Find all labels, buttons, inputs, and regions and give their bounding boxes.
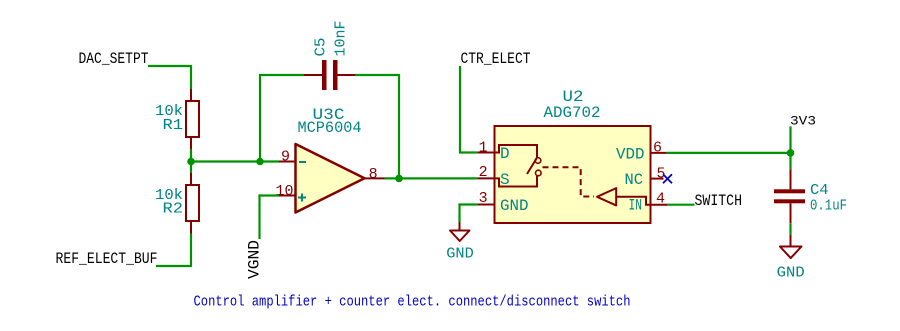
svg-text:R2: R2 (163, 201, 184, 218)
resistor R1 (186, 89, 199, 149)
svg-text:D: D (500, 145, 510, 163)
switch top contact circle (535, 158, 541, 164)
svg-text:REF_ELECT_BUF: REF_ELECT_BUF (56, 250, 158, 268)
dashed control line (543, 167, 595, 196)
svg-text:10: 10 (275, 183, 293, 200)
power symbol 3V3 (790, 113, 816, 153)
wire junction to R2 (190, 162, 192, 174)
wire pin 6 to 3V3 junction (667, 152, 791, 154)
wire U2 pin 3 to GND (460, 205, 479, 223)
U2 pin 4 stub (651, 204, 668, 206)
svg-text:SWITCH: SWITCH (695, 192, 743, 210)
op-amp U3C (296, 144, 365, 213)
U2 pin 3 stub (478, 204, 495, 206)
svg-text:10nF: 10nF (333, 21, 350, 57)
svg-text:NC: NC (625, 171, 644, 189)
opamp pin 10 stub (279, 195, 296, 197)
junction output feedback (395, 175, 403, 183)
U2 pin 5 stub (651, 178, 664, 180)
U2 pin 6 stub (651, 152, 667, 154)
wire DAC_SETPT to R1 (148, 66, 191, 90)
wire feedback up and across (260, 75, 304, 162)
svg-text:ADG702: ADG702 (544, 104, 601, 122)
svg-text:8: 8 (369, 166, 378, 183)
ground symbol under U2 (450, 222, 470, 241)
svg-text:DAC_SETPT: DAC_SETPT (79, 50, 149, 68)
junction 3V3 C4 (787, 149, 795, 157)
opamp pin 9 stub (279, 161, 296, 163)
svg-text:GND: GND (777, 265, 805, 282)
junction R1 R2 (187, 158, 195, 166)
U2 pin 1 stub (478, 152, 495, 154)
opamp minus input mark (299, 161, 306, 163)
svg-text:Control amplifier + counter el: Control amplifier + counter elect. conne… (194, 294, 631, 311)
switch contact polyline from S (495, 176, 538, 187)
U2 pin 2 stub (478, 177, 495, 179)
wire CTR_ELECT to U2 pin 1 (460, 66, 478, 153)
wire R2 to REF_ELECT_BUF (156, 234, 191, 267)
wire R1 to junction (190, 149, 192, 162)
wire junction to C4 (789, 153, 791, 169)
no-connect X on pin 5 (663, 174, 672, 183)
svg-text:C5: C5 (313, 38, 330, 57)
opamp plus input mark (298, 194, 306, 202)
capacitor C5 (304, 60, 355, 90)
svg-text:3V3: 3V3 (790, 113, 816, 128)
line driver to IN pin (616, 197, 650, 205)
svg-text:GND: GND (446, 246, 474, 263)
ground symbol under C4 (780, 235, 802, 258)
svg-text:2: 2 (479, 164, 488, 181)
svg-text:4: 4 (656, 191, 665, 208)
IC U2 body (495, 126, 651, 223)
switch contact polyline from D (495, 145, 538, 158)
driver triangle (597, 188, 616, 205)
wire pin 4 to SWITCH label (667, 204, 695, 206)
svg-text:1: 1 (479, 139, 488, 156)
svg-text:VDD: VDD (616, 146, 645, 164)
resistor R2 (186, 173, 199, 234)
wire opamp output to U2 pin 2 (385, 177, 479, 179)
capacitor C4 (774, 169, 805, 223)
svg-text:IN: IN (629, 196, 643, 214)
wire C4 to GND (789, 223, 791, 235)
svg-text:3: 3 (479, 190, 488, 207)
svg-text:GND: GND (500, 197, 529, 215)
svg-text:5: 5 (657, 165, 666, 182)
svg-text:MCP6004: MCP6004 (298, 119, 362, 137)
switch bottom contact circle (536, 170, 542, 176)
svg-text:0.1uF: 0.1uF (810, 198, 847, 215)
switch arm (527, 159, 537, 175)
wire pin 10 to VGND (260, 196, 280, 240)
svg-text:9: 9 (281, 149, 290, 166)
opamp pin 8 stub (365, 177, 385, 179)
svg-text:VGND: VGND (246, 240, 264, 279)
wire junction to opamp pin 9 (191, 160, 279, 162)
wire feedback down to output (355, 75, 399, 178)
svg-text:6: 6 (653, 140, 662, 157)
svg-text:CTR_ELECT: CTR_ELECT (461, 50, 531, 68)
svg-text:R1: R1 (163, 117, 184, 134)
junction feedback tap (256, 158, 264, 166)
svg-text:C4: C4 (810, 182, 829, 199)
